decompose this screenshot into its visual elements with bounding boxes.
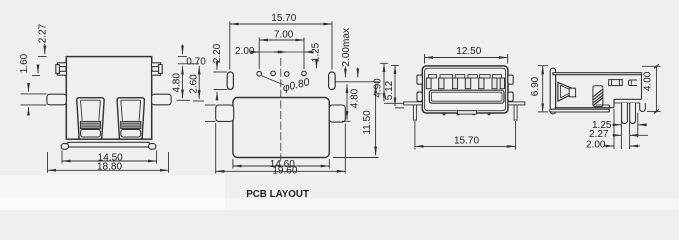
contact lintel band bbox=[429, 75, 502, 78]
hole 2 bbox=[271, 71, 276, 76]
svg-text:4.00: 4.00 bbox=[642, 71, 653, 91]
svg-text:PCB LAYOUT: PCB LAYOUT bbox=[246, 189, 309, 200]
left window hatch band bbox=[80, 121, 100, 128]
right pin horizontal bbox=[508, 102, 525, 105]
svg-text:5.12: 5.12 bbox=[384, 80, 395, 100]
right pin vertical bbox=[514, 105, 517, 120]
dim 4.00 bbox=[642, 64, 661, 113]
shell inner outline bbox=[425, 68, 506, 111]
dim 19.60 bbox=[216, 123, 346, 177]
dim 2.20 bbox=[212, 43, 227, 97]
svg-text:1.60: 1.60 bbox=[19, 53, 30, 73]
svg-text:0.70: 0.70 bbox=[186, 57, 206, 68]
dim 4.90 bbox=[373, 63, 404, 103]
right side pin bbox=[152, 94, 171, 105]
solder leg 2 bbox=[630, 103, 636, 123]
hole 1 bbox=[257, 71, 262, 76]
svg-text:2.60: 2.60 bbox=[188, 74, 199, 94]
hatched insert bbox=[593, 86, 603, 107]
svg-text:19.60: 19.60 bbox=[272, 166, 297, 177]
right contact window bbox=[117, 98, 144, 140]
pin thickness witness lines bbox=[21, 84, 47, 114]
solder leg 1 bbox=[622, 103, 628, 123]
svg-text:6.90: 6.90 bbox=[530, 76, 541, 96]
connector body U1 bbox=[66, 57, 151, 140]
tongue bbox=[429, 90, 504, 103]
hole 3 bbox=[284, 72, 289, 77]
contact posts bbox=[426, 78, 504, 89]
top right slot A bbox=[609, 80, 623, 86]
shell outer bbox=[422, 66, 508, 113]
svg-text:2.20: 2.20 bbox=[212, 43, 223, 63]
dim 18.80 bbox=[48, 152, 169, 173]
hole diameter label bbox=[262, 76, 311, 95]
svg-text:2.00max: 2.00max bbox=[341, 28, 352, 66]
left window bottom insert bbox=[81, 129, 101, 137]
svg-text:7.00: 7.00 bbox=[274, 29, 294, 40]
svg-text:15.70: 15.70 bbox=[271, 13, 296, 24]
bottom flange strip bbox=[61, 142, 156, 149]
dim 4.80 left bbox=[172, 66, 190, 100]
dim 2.00 holes bbox=[235, 46, 314, 57]
retention spring bbox=[558, 82, 576, 101]
right foot bbox=[640, 103, 646, 111]
svg-text:12.50: 12.50 bbox=[456, 46, 481, 57]
bottom feet bbox=[442, 112, 490, 115]
right oval slot bbox=[329, 72, 336, 90]
left oval slot bbox=[227, 72, 233, 90]
dim 15.70 bottom bbox=[415, 121, 516, 150]
dim 4.80 right bbox=[342, 84, 360, 121]
caption PCB LAYOUT bbox=[246, 189, 309, 200]
svg-text:2.00: 2.00 bbox=[235, 46, 255, 57]
dim 12.50 bbox=[425, 46, 508, 63]
dim 11.50 bbox=[333, 84, 379, 157]
pcb outline rectangle bbox=[233, 98, 329, 158]
left side pin bbox=[47, 94, 66, 105]
dim 2.27 legs bbox=[589, 129, 648, 140]
dim 5.12 bbox=[384, 65, 404, 108]
svg-text:2.27: 2.27 bbox=[38, 23, 49, 43]
dim 1.60 bbox=[19, 53, 40, 75]
svg-text:18.80: 18.80 bbox=[97, 162, 122, 173]
seat bar bbox=[550, 105, 610, 112]
right window bottom insert bbox=[121, 129, 141, 137]
svg-text:1.25: 1.25 bbox=[310, 42, 321, 62]
svg-text:15.70: 15.70 bbox=[454, 136, 479, 147]
left mounting tab bbox=[56, 63, 67, 75]
dim 1.25 holes bbox=[310, 42, 321, 68]
dim 7.00 bbox=[259, 29, 304, 69]
svg-text:4.90: 4.90 bbox=[373, 78, 384, 98]
hole 4 bbox=[302, 71, 307, 76]
left contact window bbox=[77, 98, 104, 140]
side body outline bbox=[550, 68, 641, 114]
svg-text:2.27: 2.27 bbox=[589, 129, 609, 140]
dim 1.25 legs bbox=[592, 120, 647, 131]
dim 2.27 bbox=[38, 23, 49, 56]
left slot bump bbox=[216, 105, 234, 121]
dim 6.90 bbox=[530, 66, 548, 112]
left shell tabs bbox=[417, 75, 422, 101]
top right slot B bbox=[629, 80, 637, 86]
dim 2.60 bbox=[188, 66, 204, 101]
svg-text:2.00: 2.00 bbox=[586, 140, 606, 151]
right mounting tab bbox=[152, 63, 163, 75]
dim 14.50 bbox=[62, 151, 157, 164]
svg-text:11.50: 11.50 bbox=[362, 110, 373, 135]
bottom center tab bbox=[458, 111, 477, 114]
dim 15.70 top bbox=[230, 13, 332, 69]
left pin vertical bbox=[413, 105, 416, 120]
dim 2.00 legs bbox=[586, 140, 640, 151]
left pin horizontal bbox=[404, 102, 423, 105]
right window hatch band bbox=[121, 121, 141, 128]
bump witness stubs bbox=[205, 105, 216, 121]
dim 14.60 bbox=[233, 159, 329, 170]
svg-text:4.80: 4.80 bbox=[349, 88, 360, 108]
dim 2.00max bbox=[335, 28, 379, 82]
svg-text:4.80: 4.80 bbox=[172, 73, 183, 93]
center line bbox=[280, 58, 282, 165]
dim 0.70 bbox=[178, 45, 206, 68]
witness lines legs bbox=[614, 109, 638, 149]
right shell tabs bbox=[508, 75, 513, 101]
right slot bump bbox=[329, 105, 345, 122]
